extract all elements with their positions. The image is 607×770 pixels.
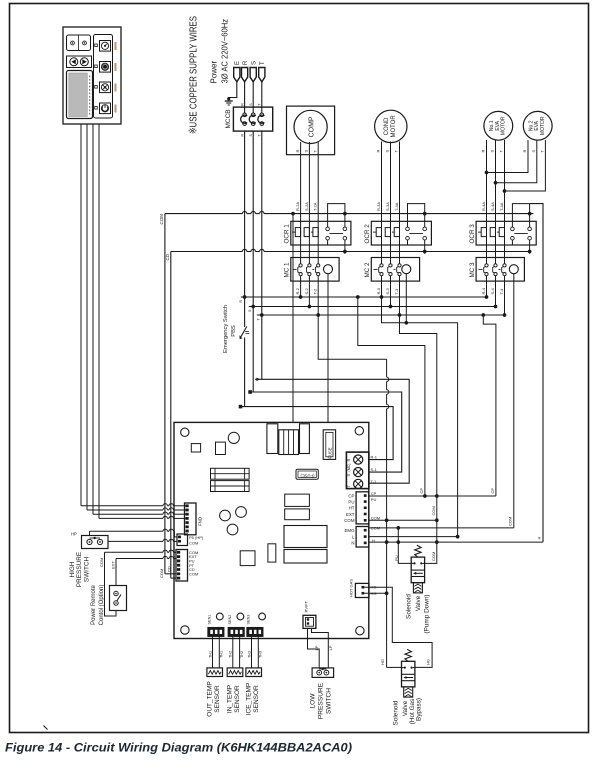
remote controller LCD display [67,71,93,119]
label MC 2 [364,262,371,278]
svg-text:FND: FND [198,517,203,526]
wire COND S to OCR2 [390,142,392,222]
svg-text:S: S [346,474,351,477]
svg-text:COM: COM [159,569,164,578]
svg-text:R: R [240,134,244,137]
wire EMG line [369,527,514,529]
svg-text:3Ø AC 220V~60Hz: 3Ø AC 220V~60Hz [221,19,230,84]
svg-text:Solenoid: Solenoid [393,700,400,725]
svg-text:R: R [240,103,244,106]
COMP pin label T [312,150,317,153]
PCB hole near SEN3 [259,613,266,620]
label RV/FT [304,600,309,612]
wire LP a [308,628,320,668]
remote controller arrow buttons [67,56,92,68]
label terminal S [346,474,351,477]
thermistor ICE_TEMP [246,668,262,677]
wire L line [369,536,458,538]
svg-text:IN_TEMP: IN_TEMP [227,685,234,713]
wire label R-2 [295,287,300,294]
wire COM line [369,519,437,521]
svg-text:TH2: TH2 [229,651,233,658]
wire S control line [248,307,401,473]
wire remote controller line 3 [93,124,186,514]
label terminal (MC) [347,464,351,472]
svg-text:R: R [243,60,249,65]
PCB capacitor circle 2 [236,507,247,518]
compressor box [287,106,335,155]
terminal T [259,61,267,82]
connector RV/FT [303,615,316,628]
svg-text:EXT: EXT [110,561,115,569]
svg-text:CP: CP [371,491,377,496]
No.2 EVA pin label S [531,150,536,153]
wire COND T to OCR2 [399,142,401,222]
remote button 3 [95,82,111,93]
label conn PU [348,499,354,504]
svg-text:R: R [481,150,486,153]
svg-text:Solenoid: Solenoid [406,594,413,619]
PCB component circle [228,432,239,443]
wire TH3 a [247,636,251,668]
PCB hole near SEN1 [216,613,223,620]
overcurrent relay OCR 1 [291,221,351,245]
label pin EXT [189,554,197,559]
label terminal R [346,459,351,462]
svg-text:P5 (HP): P5 (HP) [189,535,204,540]
COND pin label T [394,150,399,153]
svg-text:COM: COM [508,517,513,526]
svg-text:RV/FT: RV/FT [304,600,309,612]
remote controller indicator box [67,35,91,51]
label T bus [256,318,260,321]
label Solenoid Valve (Pump Down) [406,594,431,634]
wire label R-2A [295,202,300,211]
wire OCR aux to MC coil [344,252,346,254]
PCB relay big 2 [284,550,327,564]
wire label S-4A [490,202,495,211]
label H right [537,537,542,540]
svg-text:MC 3: MC 3 [469,262,476,278]
label COM mid [431,506,436,515]
svg-text:HG: HG [380,659,385,665]
svg-text:R-3: R-3 [376,287,381,294]
label wire CP [371,491,377,496]
svg-text:COM: COM [431,552,436,561]
wire mains T [261,131,263,315]
svg-text:(MC): (MC) [347,464,351,472]
label Emergency Switch [223,305,229,353]
PCB component mid rect 1 [285,494,310,506]
svg-text:COM: COM [189,571,198,576]
svg-text:R-3A: R-3A [376,202,381,211]
wire label T-2A [313,202,318,211]
wire MC2 coil down [404,274,408,325]
svg-text:MOTOR: MOTOR [540,116,546,135]
terminal S [250,61,258,82]
svg-text:HT: HT [349,506,355,511]
wire label R-3A [376,202,381,211]
wire MC1 S-2 [308,281,312,308]
wire mains R [244,131,246,297]
svg-text:Bypass): Bypass) [416,698,423,721]
terminal block R(MC)S T [346,452,369,489]
label COM right vertical [508,517,513,526]
svg-text:EMG: EMG [344,528,355,533]
wire supply to MCCB [261,82,263,113]
label conn N [351,541,354,546]
svg-text:Contol (Option): Contol (Option) [99,585,105,626]
PCB capacitor circle 3 [227,524,238,535]
COMP pin label R [295,150,300,153]
wire TH2 a [229,636,233,668]
PCB capacitor circle 1 [220,510,231,521]
wire supply to MCCB [252,82,254,113]
wire R bus to L vertical [382,297,460,538]
svg-text:FUSE: FUSE [328,447,333,458]
svg-text:S-4A: S-4A [490,202,495,211]
label LP a [314,645,319,650]
overcurrent relay OCR 3 [476,221,536,245]
PCB component small square 1 [191,444,200,452]
svg-text:EXT: EXT [346,512,355,517]
svg-text:R: R [522,150,527,153]
svg-text:※USE COPPER SUPPLY WIRES: ※USE COPPER SUPPLY WIRES [188,16,200,134]
label HG pin2 [371,591,377,596]
wire N line [369,541,543,543]
svg-text:R: R [295,150,300,153]
label HG pin1 [371,585,377,590]
wire COND R to OCR2 [381,142,383,222]
svg-text:TH2: TH2 [240,651,244,658]
stray tick mark [44,726,48,730]
svg-text:R: R [239,300,243,303]
wire hot gas 1 [364,587,432,667]
label conn EMG [344,528,355,533]
wire HP switch pin2 [108,539,177,541]
No.2 EVA pin label R [522,150,527,153]
ground symbol [225,97,233,105]
svg-text:S-1: S-1 [371,467,378,472]
svg-text:SWITCH: SWITCH [84,557,91,583]
remote controller body [63,27,121,124]
svg-text:HP: HP [71,532,77,537]
bus S [249,305,496,309]
svg-text:S: S [490,150,495,153]
label FND [198,517,203,526]
label conn EXT [346,512,355,517]
svg-text:T-1: T-1 [371,479,378,484]
connector SEN1 [208,628,224,637]
thermistor IN_TEMP [227,668,243,677]
COMP pin label S [304,150,309,153]
wire remote controller line 4 [99,124,186,518]
label pin CD [189,567,195,572]
svg-text:CP: CP [490,488,495,494]
magnetic contactor MC 2 [371,245,419,281]
wire OCR aux to MC coil [529,252,531,254]
OCR 1 aux to CD wire [343,245,347,253]
svg-text:R-2A: R-2A [295,202,300,211]
label wire COM2 [371,516,380,521]
svg-text:MOTOR: MOTOR [391,115,397,138]
svg-text:N: N [351,541,354,546]
OCR 1 aux loop wire [328,204,347,222]
svg-text:COM: COM [159,214,164,225]
PCB relay big 1 [284,526,327,548]
wire label T-4 [499,288,504,295]
bus COM [165,211,534,573]
motor COMP [294,110,327,143]
label HOT GAS [349,579,354,597]
label CP right [490,488,495,494]
wire R bus to CP vertical [356,295,427,498]
svg-text:TH3: TH3 [247,651,251,658]
svg-text:OCR 3: OCR 3 [469,224,476,244]
svg-text:R-4: R-4 [481,287,486,294]
svg-text:HIGH: HIGH [69,561,76,577]
OCR 3 aux to CD wire [528,245,532,253]
wire T bus to COM vertical [400,315,439,522]
wire TH1 b [219,636,223,668]
svg-text:T-4: T-4 [499,288,504,295]
svg-text:HG: HG [426,659,431,665]
label COM bottom [159,569,164,578]
solenoid valve hot gas [402,649,415,697]
caption Figure 14 [5,741,352,755]
wire PBS down [244,338,246,407]
wire COM to PCB [291,212,295,423]
overcurrent relay OCR 2 [371,221,431,245]
MCCB pin label R bottom [240,134,244,137]
label S bus [248,309,252,312]
OCR 3 aux loop wire [512,204,531,222]
svg-text:T-3A: T-3A [394,202,399,211]
PCB component thin rect [268,544,276,562]
wire MC2 T-3 [398,281,402,317]
wire label T-3A [394,202,399,211]
PCB component block B [279,430,299,455]
label P5 COM [189,540,198,545]
wire COMP S to OCR1 [308,142,310,221]
PCB board outline [174,422,369,638]
svg-text:COM: COM [431,506,436,515]
PCB mounting hole [181,626,189,634]
wire label T-3 [394,288,399,295]
svg-text:T: T [260,61,266,65]
wire MC1 T-2 [316,281,320,317]
svg-text:HOT GAS: HOT GAS [349,579,354,597]
wire label R-4A [481,202,486,211]
svg-text:SENSOR: SENSOR [234,685,241,713]
label COM wire [99,558,104,567]
thermistor OUT_TEMP [207,668,223,677]
MCCB pin label T top [258,103,262,106]
wire label T-4A [499,202,504,211]
label IN_TEMP SENSOR [227,685,242,713]
label LP b [328,645,333,650]
remote controller button panel [94,35,113,119]
wire EVA1 T to OCR3 [504,140,506,221]
svg-text:MOTOR: MOTOR [501,116,507,135]
connector EXT/COM 7pin [176,550,188,582]
COND pin label S [385,150,390,153]
label COM valve [431,552,436,561]
wire label S-2 [304,288,309,295]
wire label S-3 [385,288,390,295]
label P5 (HP) [189,535,204,540]
label ICE_TEMP SENSOR [245,683,260,716]
fuse label box [296,469,318,479]
label conn CP [348,493,354,498]
wire remote controller line 2 [87,124,186,510]
MCCB pin label S top [249,103,253,106]
bus CD [171,249,530,578]
No.2 EVA pin label T [540,150,545,153]
terminal R [242,60,250,82]
label OCR 1 [284,224,291,244]
svg-text:Power Remote: Power Remote [91,584,97,624]
PCB mounting hole [181,428,189,436]
MCCB pin label S bottom [249,134,253,137]
motor COND [375,110,407,142]
label MCCB [225,109,232,128]
svg-text:T-2A: T-2A [313,202,318,211]
terminal E [234,61,242,82]
wire MC3 S-4 [494,281,498,308]
wire remote controller line 1 [81,124,186,506]
svg-text:Valve: Valve [415,595,422,611]
svg-text:SWITCH: SWITCH [326,688,333,714]
label Power Remote Contol (Option) [91,584,105,625]
remote button label 4 [115,105,117,113]
wire mains S [252,131,254,306]
wire hot gas 2 [364,592,386,594]
label R bus [239,300,243,303]
svg-text:S: S [531,150,536,153]
label EXT wire [110,561,115,569]
No.1 EVA pin label R [481,150,486,153]
label HIGH PRESSURE SWITCH [69,552,91,587]
svg-text:OCR 2: OCR 2 [364,224,371,244]
low pressure switch box [312,668,334,678]
label PBS [231,325,237,337]
label Power [210,60,219,83]
MCCB pin label T bottom [258,134,262,137]
label pin COM [189,571,198,576]
label pin COM [189,550,198,555]
connector HOT GAS [355,583,369,597]
PCB mounting hole [356,627,364,635]
label MC 1 [284,262,291,278]
PCB component block C [300,424,310,454]
svg-text:MC 2: MC 2 [364,262,371,278]
label Solenoid Valve (Hot Gas Bypass) [393,698,423,725]
wire label S-2A [304,202,309,211]
svg-text:R-2: R-2 [295,287,300,294]
connector FND [185,503,197,535]
label conn COM [344,518,355,523]
svg-text:PBS: PBS [231,325,237,337]
wire COM vertical to pin [165,573,176,575]
label SEN3 [247,615,251,625]
svg-text:Power: Power [210,60,219,83]
wire CD vertical to pin [171,577,176,579]
No.1 EVA pin label S [490,150,495,153]
svg-text:E: E [235,61,241,65]
connector SEN2 [228,628,244,637]
PCB mounting hole [355,427,363,435]
OCR 2 aux loop wire [408,204,427,222]
svg-text:T-3: T-3 [394,288,399,295]
PCB relay bar 1 [211,468,250,479]
wire EVA1 S to OCR3 [495,140,497,221]
label S-1 [371,467,378,472]
svg-text:SENSOR: SENSOR [214,685,221,713]
svg-text:(Pump Down): (Pump Down) [424,594,431,633]
label wire H [372,538,375,543]
label CD bottom [167,566,172,572]
bus T [257,313,505,317]
svg-text:ICE_TEMP: ICE_TEMP [245,683,252,716]
label MC 3 [469,262,476,278]
wire T control line [255,315,409,483]
svg-text:S: S [385,150,390,153]
svg-text:SEN2: SEN2 [228,615,232,625]
wire label R-4 [481,287,486,294]
svg-text:MC 1: MC 1 [284,262,291,278]
wire EVA1 R to OCR3 [486,140,488,221]
connector EMG/L/N [356,527,369,548]
wire label S-3A [385,202,390,211]
label wire COM3 [371,526,380,531]
svg-text:S: S [304,150,309,153]
label COM bus [159,214,164,225]
svg-text:T-4A: T-4A [499,202,504,211]
svg-text:R: R [346,459,351,462]
label conn HT [349,506,355,511]
svg-text:CP: CP [419,488,424,494]
PCB component small square 3 [240,551,255,566]
svg-text:OUT_TEMP: OUT_TEMP [206,681,213,716]
svg-text:SENSOR: SENSOR [253,685,260,713]
label HP [71,532,77,537]
svg-text:PU: PU [371,497,377,502]
svg-text:LOW: LOW [310,693,317,709]
wire E to ground [229,82,237,101]
wire label R-3 [376,287,381,294]
remote button 1 [95,41,111,52]
magnetic contactor MC 3 [476,245,524,281]
label SEN2 [228,615,232,625]
solenoid valve pump down [411,545,424,593]
connector SEN3 [247,628,263,637]
wire OCR3 loop to right vertical [530,204,543,542]
svg-text:TH1: TH1 [220,651,224,658]
svg-text:PU: PU [348,499,354,504]
label OUT_TEMP SENSOR [206,681,221,716]
wire MC3 R-4 [485,281,489,299]
svg-text:LP: LP [328,645,333,650]
label LOW PRESSURE SWITCH [310,682,333,719]
magnetic contactor MC 1 [291,245,339,281]
svg-text:TH1: TH1 [208,651,212,658]
wire MC1 R-2 [299,281,303,299]
remote button 2 [95,62,111,73]
svg-text:Emergency Switch: Emergency Switch [223,305,229,353]
power remote control box [110,586,127,611]
svg-text:COM: COM [189,540,198,545]
